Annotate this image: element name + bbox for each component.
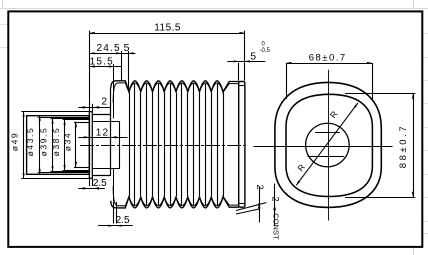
- svg-text:68±0.7: 68±0.7: [309, 52, 347, 63]
- dim 88: [345, 93, 415, 197]
- svg-text:12: 12: [96, 127, 110, 138]
- svg-text:115.5: 115.5: [154, 23, 181, 34]
- dia49 ext lines: [21, 112, 92, 179]
- centerline axis: [80, 145, 246, 147]
- svg-text:2: 2: [270, 197, 280, 202]
- neck: [92, 115, 120, 176]
- svg-text:2: 2: [102, 97, 108, 108]
- outer profile right view: [275, 82, 381, 207]
- flange step lines: [38, 118, 90, 173]
- R radius leaders: [295, 103, 358, 186]
- dim 2.5 lip: [78, 178, 107, 190]
- h centerline: [254, 146, 393, 148]
- inner obround: [286, 94, 372, 196]
- circle chords: [308, 133, 345, 157]
- svg-text:2.5: 2.5: [116, 215, 130, 226]
- flange body: [27, 116, 90, 175]
- svg-text:5: 5: [250, 51, 256, 63]
- svg-text:-0.5: -0.5: [260, 48, 271, 54]
- center circle: [306, 123, 350, 167]
- svg-text:15.5: 15.5: [90, 57, 114, 68]
- dim 68: [286, 52, 373, 99]
- svg-text:2: 2: [255, 185, 265, 190]
- lip ring seat: [89, 112, 92, 179]
- dim 2.5 wall: [98, 202, 133, 227]
- dim 12: [78, 127, 127, 138]
- dim 115.5: [89, 23, 245, 112]
- v centerline: [328, 70, 330, 221]
- svg-text:ø38.5: ø38.5: [51, 127, 61, 157]
- dim 2 lip: [78, 97, 111, 112]
- svg-text:ø43.5: ø43.5: [25, 127, 35, 157]
- right cuff: [239, 82, 245, 208]
- svg-text:5: 5: [124, 42, 130, 54]
- svg-text:ø34: ø34: [62, 132, 72, 151]
- svg-text:24.5: 24.5: [96, 43, 120, 54]
- svg-text:88±0.7: 88±0.7: [398, 124, 409, 169]
- svg-text:CONST: CONST: [272, 213, 281, 240]
- leader 2 CONST: [236, 184, 281, 240]
- bellows corrugations: [111, 64, 239, 208]
- svg-text:ø39.5: ø39.5: [38, 127, 48, 157]
- dim 24.5 / 5: [89, 42, 136, 91]
- dim 5 tol: [227, 41, 270, 80]
- svg-text:ø49: ø49: [9, 132, 19, 151]
- dim 15.5: [89, 57, 122, 68]
- dia dims: [9, 111, 77, 178]
- svg-text:2.5: 2.5: [93, 178, 107, 189]
